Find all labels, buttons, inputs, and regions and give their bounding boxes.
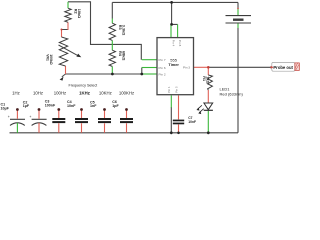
svg-text:1Hz: 1Hz — [12, 91, 20, 96]
svg-text:+: + — [8, 115, 10, 119]
svg-text:R4: R4 — [118, 51, 122, 57]
svg-text:10µF: 10µF — [1, 106, 10, 110]
svg-text:Pin 7: Pin 7 — [159, 58, 166, 62]
svg-text:10Hz: 10Hz — [33, 91, 43, 96]
svg-text:1pF: 1pF — [112, 104, 119, 108]
svg-text:3.3kΩ: 3.3kΩ — [121, 25, 125, 35]
svg-text:1KHz: 1KHz — [79, 91, 90, 96]
svg-text:Pin 1: Pin 1 — [167, 86, 171, 93]
svg-text:Pin 8: Pin 8 — [178, 40, 182, 47]
svg-text:Pin 5: Pin 5 — [174, 86, 178, 93]
svg-text:1nF: 1nF — [90, 104, 97, 108]
svg-text:R3: R3 — [118, 25, 122, 30]
svg-text:VR1: VR1 — [45, 54, 49, 61]
svg-text:68kΩ: 68kΩ — [121, 51, 125, 60]
svg-text:Red (633nm): Red (633nm) — [220, 92, 244, 97]
svg-text:+: + — [29, 115, 31, 119]
svg-text:R1: R1 — [202, 76, 206, 81]
svg-text:1µF: 1µF — [23, 104, 30, 108]
svg-text:R2: R2 — [74, 9, 78, 14]
svg-text:1kΩ: 1kΩ — [205, 76, 209, 83]
svg-text:Probe out: Probe out — [273, 65, 293, 70]
svg-text:Pin 4: Pin 4 — [171, 40, 175, 47]
svg-text:Frequency Select: Frequency Select — [69, 84, 98, 88]
svg-text:100kΩ: 100kΩ — [49, 54, 53, 65]
svg-text:100Hz: 100Hz — [54, 91, 66, 96]
svg-text:Pin 2: Pin 2 — [159, 73, 166, 77]
svg-text:Pin 3: Pin 3 — [183, 66, 190, 70]
svg-text:Pin 6: Pin 6 — [159, 66, 166, 70]
svg-text:Timer: Timer — [168, 62, 179, 67]
svg-text:10KHz: 10KHz — [99, 91, 112, 96]
svg-text:100KHz: 100KHz — [119, 91, 134, 96]
svg-text:10nF: 10nF — [67, 104, 76, 108]
svg-text:10nF: 10nF — [188, 120, 196, 124]
svg-text:100nF: 100nF — [45, 103, 56, 107]
svg-text:10kΩ: 10kΩ — [77, 9, 81, 18]
